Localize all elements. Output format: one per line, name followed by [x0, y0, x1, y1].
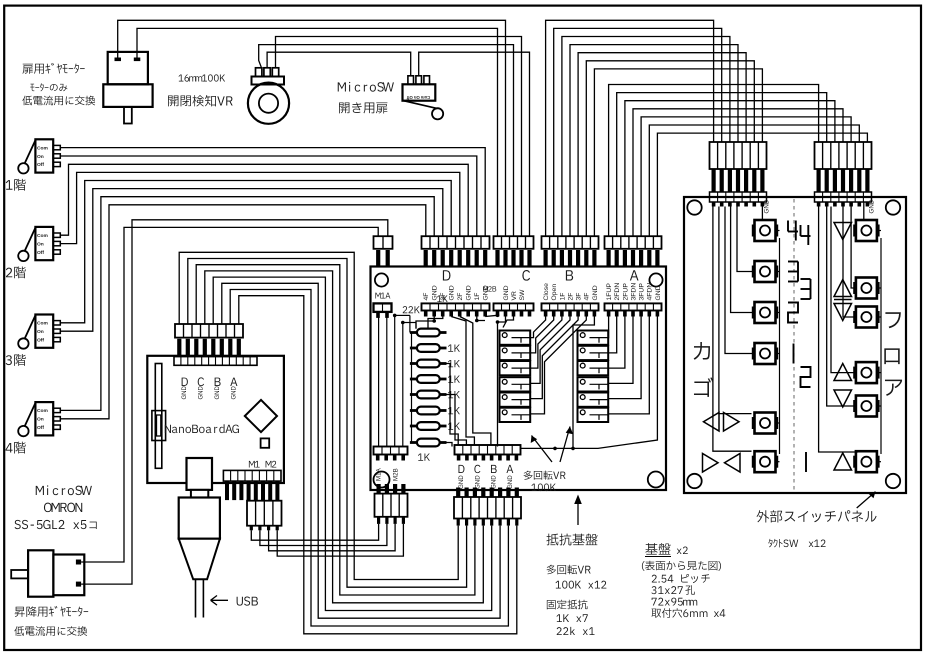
svg-text:SW: SW [519, 289, 526, 301]
wire B pin3 to left trimmer #3 [530, 317, 562, 369]
svg-text:GND: GND [491, 475, 498, 489]
svg-text:1FUP: 1FUP [606, 283, 613, 301]
label 1K overlapping D strip [437, 295, 448, 302]
connector plug B-group above resistor board [542, 236, 599, 249]
svg-text:M2B: M2B [393, 468, 400, 481]
wire A plug pin2 to right panel connector pin2 [617, 93, 827, 237]
label tact switch count [768, 539, 825, 548]
motor M1 terminal lower [76, 582, 81, 587]
panel mounting holes [687, 200, 701, 214]
wire motor M2 left terminal to C plug pin2 [118, 20, 506, 236]
tact switch right panel #4 [856, 362, 877, 383]
trimmer VR 100K right column #5 [578, 393, 609, 407]
wire M1A header pin1 down to bottom connector [378, 317, 380, 447]
header strip A on board [605, 303, 662, 310]
SW pin 2 [416, 76, 422, 85]
connector plug above NanoBoard top header [175, 324, 243, 338]
svg-text:M1A: M1A [376, 467, 383, 481]
header strip B on board [542, 303, 599, 310]
connector plug M1M2 below NanoBoard [247, 501, 282, 526]
header strip M1A on board [374, 303, 392, 312]
trimmer VR 100K right column #1 [578, 331, 609, 345]
resistor board mounting holes [375, 273, 388, 286]
wire A GND pin down to bottom rail [573, 317, 657, 449]
label resistor board with up arrow [546, 534, 597, 546]
VR pin 2 [264, 68, 270, 77]
wire 1F Com to D plug pin8 [60, 148, 485, 237]
wire D pin8 diagonal to C bus [485, 315, 497, 316]
svg-text:GND: GND [458, 475, 465, 489]
digit 2 left panel [788, 303, 798, 323]
label MicroSW [338, 82, 394, 92]
header strip D on board [422, 303, 490, 310]
svg-text:Com: Com [37, 145, 49, 151]
svg-text:GND: GND [466, 285, 473, 300]
tact switch left panel #1 [755, 220, 776, 241]
wire A pin4 to right trimmer #4 [608, 317, 633, 384]
microswitch floor 3F body [35, 315, 53, 348]
NanoBoard bottom header [223, 470, 281, 481]
triangle right-panel row5 down [834, 390, 852, 407]
svg-text:GND: GND [503, 285, 510, 300]
wire panel right pin4 to switch3 [843, 207, 856, 318]
label lift gear motor [15, 606, 88, 617]
floor 3F switch pin Off [53, 337, 60, 341]
motor M2 terminal right [134, 58, 141, 62]
VR pin 3 [272, 68, 278, 77]
wire 2F Com to D plug pin6 [60, 164, 468, 236]
floor 3F switch pin On [53, 329, 60, 333]
floor 3F switch pin Com [53, 321, 60, 325]
wire C GND pin to left bus [498, 317, 506, 447]
NanoBoard left edge connector [155, 364, 162, 469]
svg-text:On: On [37, 329, 44, 335]
connector plug C-group above resistor board [494, 236, 534, 249]
label multi-turn VR 100K with arrows [524, 471, 566, 480]
wire 2F On to D plug pin5 [60, 172, 460, 243]
motor M2 terminal left [115, 58, 122, 62]
wire panel left pin5 to switch2 [737, 207, 755, 272]
microswitch floor 2F body [35, 227, 53, 260]
tact switch right panel #1 [856, 220, 877, 241]
triangle left-panel row6 right [725, 454, 741, 473]
arrow to right trimmer column [560, 427, 570, 463]
USB arrow and label [211, 599, 228, 601]
potentiometer VR 16mm100K body [248, 83, 289, 124]
label 22K [403, 306, 420, 313]
connector plug M1A/M2B below resistor board [375, 494, 408, 517]
wire B pin1 to left trimmer #1 [530, 317, 545, 338]
wire M1M2 pin2 to M1A/M2B plug pin2 [260, 524, 387, 546]
triangle left-panel row5 right [724, 413, 740, 432]
connector plug M1A above resistor board [374, 236, 393, 249]
wire panel right pin1 to switch6 [819, 207, 858, 453]
header strip C on board [494, 303, 534, 310]
svg-text:Off: Off [37, 250, 44, 256]
resistor 1K #1 [410, 347, 418, 350]
svg-text:GND: GND [655, 285, 662, 300]
wire 4F On to D plug pin1 [60, 205, 426, 419]
wire NanoBoard D-bus pin4 to resistor board bottom plug pin4 [205, 271, 484, 603]
svg-text:GND: GND [592, 285, 599, 300]
floor 2F switch pin Off [53, 250, 60, 254]
digit 1 left panel [793, 344, 795, 364]
wire 1F On to D plug pin7 [60, 156, 477, 236]
wire B plug pin4 to left panel connector pin4 [570, 45, 738, 237]
svg-text:Close: Close [543, 283, 550, 301]
floor 1F switch pin On [53, 154, 60, 158]
svg-text:Com: Com [37, 233, 49, 239]
triangle right-panel row3 down [834, 304, 852, 321]
floor 1F switch lever [25, 140, 36, 164]
motor M2 door gear motor body [108, 52, 148, 84]
wire B GND pin down to bottom rail [521, 317, 595, 449]
digit 4 left panel [787, 221, 789, 232]
tact switch left panel #2 [755, 261, 776, 282]
SW roller [432, 108, 443, 119]
wire NanoBoard D-bus pin3 to resistor board bottom plug pin3 [196, 265, 475, 595]
header strip M1A/M2B bottom-left on board [374, 447, 408, 455]
svg-text:GND: GND [764, 199, 771, 213]
header strip panel left [710, 192, 767, 202]
wire M1M2 pin4 to M1A/M2B plug pin4 [277, 524, 403, 556]
svg-text:On: On [37, 241, 44, 247]
NanoBoard top header D C B A [174, 357, 257, 366]
label 2F floor [6, 266, 26, 278]
floor 3F switch lever [25, 315, 36, 339]
resistor 1K #7 [410, 441, 418, 444]
header strip panel right [815, 192, 872, 202]
wire M1M2 pin1 to M1A/M2B plug pin1 [251, 524, 378, 540]
wire resistor row8 right lead to bottom header [447, 443, 453, 447]
triangle right-panel row2 up [834, 280, 852, 297]
SW pin 1 [408, 76, 414, 85]
label open/close detection VR [168, 95, 233, 107]
wire NanoBoard D-bus pin8 to resistor board bottom plug pin8 [239, 296, 517, 634]
wire resistor left-lead chain [411, 333, 413, 443]
tact switch right panel #3 [856, 307, 877, 328]
triangle left-panel row5 left [704, 413, 720, 432]
VR pin 1 [256, 68, 262, 77]
label MicroSW OMRON [36, 485, 92, 495]
connector plug above panel right [815, 142, 872, 169]
floor 2F switch pin On [53, 241, 60, 245]
wire A plug pin5 to right panel connector pin5 [641, 117, 851, 236]
wire 3F On to D plug pin3 [60, 189, 443, 332]
wire resistor row3 to bottom header D pin [447, 364, 459, 446]
wire NanoBoard D-bus pin5 to resistor board bottom plug pin5 [213, 277, 492, 610]
tact switch left panel #3 [755, 302, 776, 323]
resistor 1K #5 [410, 409, 418, 412]
labels D C B A bottom header [458, 465, 464, 473]
svg-text:GND: GND [449, 285, 456, 300]
wire B plug pin3 to left panel connector pin3 [562, 37, 730, 237]
label NanoBoardAG [165, 424, 239, 433]
connector plug above panel left [710, 142, 767, 169]
digit 2 right panel [801, 367, 811, 387]
svg-text:Com On Off: Com On Off [406, 95, 430, 100]
wire microswitch middle pin to C plug pin5 [419, 52, 530, 236]
floor 3F switch roller [18, 338, 28, 348]
svg-text:GND: GND [432, 285, 439, 300]
value labels 1K [448, 344, 460, 351]
labels D C B A on NanoBoard [182, 378, 188, 386]
trimmer VR 100K left column #3 [500, 361, 531, 375]
resistor 1K #3 [410, 378, 418, 381]
section letters D C B A on resistor board [443, 270, 451, 280]
USB plug body [179, 498, 220, 539]
wire panel right pin2 to switch5 [827, 207, 856, 407]
connector plug A-group above resistor board [605, 236, 662, 249]
svg-text:VR: VR [511, 291, 518, 301]
wire GND chain left panel [779, 238, 781, 454]
floor 2F switch lever [25, 228, 36, 252]
tact switch right panel #6 [856, 451, 877, 472]
triangle left-panel row6 left [703, 454, 719, 473]
wire B pin2 to left trimmer #2 [530, 317, 554, 353]
floor 4F switch pin Com [53, 408, 60, 412]
wire A plug pin6 to right panel connector pin6 [649, 125, 859, 236]
wire resistor row5 to bottom header [447, 395, 467, 446]
connector plug DCBA-GND below resistor board [454, 497, 521, 519]
svg-text:GND: GND [474, 475, 481, 489]
svg-text:GND: GND [199, 386, 205, 400]
wire 4F Com to D plug pin2 [60, 197, 434, 411]
wire D pin5 long drop to bottom header [460, 317, 491, 446]
label 4F floor [6, 442, 26, 454]
label 16mm100K [179, 74, 226, 81]
wire NanoBoard D-bus pin2 to resistor board bottom plug pin2 [188, 259, 467, 588]
wire D pin3 into 22K resistor top [428, 317, 443, 329]
triangle right-panel row6 up [834, 453, 852, 470]
svg-text:GND: GND [215, 386, 221, 400]
floor 2F switch pin Com [53, 233, 60, 237]
trimmer VR 100K left column #5 [500, 393, 531, 407]
wire panel left pin3 to switch4 [725, 207, 755, 354]
motor M1 terminal upper [76, 560, 81, 565]
label external switch panel with arrow [757, 510, 877, 522]
tact switch left panel #5 [755, 413, 776, 434]
rotated pin labels C group [483, 286, 496, 291]
wire B pin6 to left trimmer #6 [530, 317, 586, 414]
wire A plug pin7 to right panel connector pin7 [657, 133, 867, 236]
tact switch left panel #6 [755, 451, 776, 472]
wire panel left pin1 to switch6 [713, 207, 752, 452]
svg-text:Com: Com [37, 321, 49, 327]
wire B plug pin1 to left panel connector pin1 [546, 20, 714, 236]
wire B plug pin2 to left panel connector pin2 [554, 28, 722, 236]
wire NanoBoard D-bus pin1 to resistor board bottom plug pin1 [179, 252, 458, 579]
label board x2 block [645, 543, 670, 555]
svg-text:3F: 3F [576, 293, 583, 301]
floor 1F switch pin Com [53, 145, 60, 149]
wire VR right pin to C plug pin4 [276, 37, 522, 237]
svg-text:2FDN: 2FDN [614, 283, 621, 301]
wire B plug pin7 to left panel connector pin7 [594, 69, 762, 236]
svg-text:2F: 2F [567, 293, 574, 301]
svg-text:GND: GND [182, 386, 188, 400]
panel label kago (vertical) [694, 342, 710, 360]
wire D pin7 stub [477, 317, 485, 321]
wire A pin5 to right trimmer #5 [608, 317, 641, 399]
label 3F floor [6, 354, 26, 366]
wire A plug pin1 to right panel connector pin1 [609, 85, 819, 237]
resistor 1K #2 [410, 362, 418, 365]
trimmer VR 100K left column #6 [500, 408, 531, 422]
label M1 M2 [249, 461, 276, 468]
digit 1 right panel [805, 452, 807, 472]
microswitch floor 1F body [35, 139, 53, 172]
panel label floor (vertical) [885, 312, 900, 328]
wire M1 lower terminal to M1A plug pin2 [81, 220, 388, 584]
resistor 1K #4 [410, 393, 418, 396]
resistor 1K #6 [410, 425, 418, 428]
svg-text:3FDN: 3FDN [630, 283, 637, 301]
triangle right-panel row4 up [834, 364, 852, 381]
microswitch floor 4F body [35, 402, 53, 435]
digit 3 left panel [788, 261, 798, 263]
wire 3F Com to D plug pin4 [60, 181, 451, 323]
wire panel right pin5 to switch2 [851, 207, 856, 289]
triangle right-panel row1 down [834, 223, 852, 240]
svg-text:Off: Off [37, 425, 44, 431]
SW pin 3 [424, 76, 430, 85]
floor 4F switch lever [25, 403, 36, 427]
digit 4 right panel [800, 225, 802, 236]
SW lever [404, 101, 438, 109]
trimmer VR 100K right column #2 [578, 346, 609, 360]
wire A plug pin4 to right panel connector pin4 [633, 109, 843, 236]
floor 4F switch pin Off [53, 425, 60, 429]
wire panel left pin7 to switch1 [761, 202, 763, 220]
trimmer VR 100K right column #3 [578, 361, 609, 375]
wire panel right pin3 to switch4 [831, 207, 856, 373]
connector plug D-group above resistor board [422, 236, 490, 249]
external switch panel board outline [684, 197, 906, 493]
wire M1A header pin2 down to bottom connector [386, 317, 388, 447]
label fixed resistors [547, 600, 588, 610]
tact switch right panel #5 [856, 396, 877, 417]
microswitch SW door-open body [403, 84, 436, 100]
wire D pin4 long drop to bottom header [451, 317, 474, 446]
wire D pin2 step to resistor area [416, 317, 434, 329]
trimmer VR 100K left column #4 [500, 377, 531, 391]
svg-text:1F: 1F [474, 293, 481, 301]
panel center dashed divider [793, 199, 795, 491]
wire A plug pin3 to right panel connector pin3 [625, 101, 835, 237]
svg-text:2FUP: 2FUP [622, 283, 629, 301]
label 1F floor [6, 179, 26, 191]
wire VR left pin to C plug pin3 [259, 45, 514, 237]
digit 3 right panel [801, 278, 811, 280]
svg-text:Off: Off [37, 162, 44, 168]
label door gear motor [22, 63, 84, 74]
floor 1F switch pin Off [53, 162, 60, 166]
tact switch left panel #4 [755, 343, 776, 364]
trimmer VR 100K right column #4 [578, 377, 609, 391]
NanoBoard small square component [261, 438, 270, 447]
wire motor M2 right terminal to C plug pin1 [137, 28, 498, 236]
trimmer VR 100K left column #1 [500, 331, 531, 345]
USB cable strain relief taper [179, 539, 220, 580]
wire B pin5 to left trimmer #5 [530, 317, 578, 399]
floor 4F switch roller [18, 426, 28, 436]
svg-text:On: On [37, 154, 44, 160]
NanoBoard diamond chip [245, 400, 277, 432]
arrow to left trimmer column [532, 436, 553, 463]
wire junction node second column [401, 321, 405, 325]
label M1A top-left [375, 293, 390, 299]
floor 2F switch roller [18, 251, 28, 261]
wire panel right pin7 to switch1 [863, 202, 865, 220]
svg-text:On: On [37, 417, 44, 423]
floor 4F switch pin On [53, 417, 60, 421]
svg-text:GND: GND [507, 475, 514, 489]
svg-text:2F: 2F [457, 293, 464, 301]
resistor board outline [371, 267, 667, 491]
svg-text:3FUP: 3FUP [639, 283, 646, 301]
svg-text:Open: Open [551, 284, 558, 301]
tact switch right panel #2 [856, 278, 877, 299]
trimmer VR 100K left column #2 [500, 346, 531, 360]
wire panel left pin2 to switch5 [719, 207, 752, 414]
wire A pin6 to right trimmer #6 [608, 317, 649, 414]
svg-text:Off: Off [37, 337, 44, 343]
svg-text:1F: 1F [559, 293, 566, 301]
floor 1F switch roller [18, 163, 28, 173]
svg-text:4F: 4F [423, 293, 430, 301]
wire NanoBoard D-bus pin7 to resistor board bottom plug pin7 [230, 290, 508, 627]
wire NanoBoard D-bus pin6 to resistor board bottom plug pin6 [222, 283, 500, 618]
trimmer VR 100K right column #6 [578, 408, 609, 422]
svg-text:Com: Com [37, 408, 49, 414]
wire VR middle pin to microswitch left pin [267, 52, 411, 76]
svg-text:4FDN: 4FDN [647, 283, 654, 301]
wire A pin3 to right trimmer #3 [608, 317, 625, 369]
resistor 22K [410, 331, 418, 334]
wire GND chain right panel [880, 238, 882, 454]
wire junction node to 22K resistor [393, 314, 397, 318]
header strip DCBA-GND bottom on board [455, 445, 521, 455]
wire B pin4 to left trimmer #4 [530, 317, 570, 384]
USB plug neck [187, 458, 213, 490]
wire B plug pin6 to left panel connector pin6 [586, 61, 754, 236]
wire M1M2 pin3 to M1A/M2B plug pin3 [269, 524, 396, 551]
NanoBoardAG board outline [147, 356, 284, 483]
wire panel left pin4 to switch3 [731, 207, 755, 313]
label multi-turn VR count [547, 565, 591, 575]
svg-text:4F: 4F [584, 293, 591, 301]
motor M1 lift gear motor body [28, 550, 53, 596]
svg-text:GND: GND [869, 199, 876, 213]
wire C VR pin to trimmer row1 wiper [503, 317, 514, 328]
wire B plug pin5 to left panel connector pin5 [578, 53, 746, 237]
svg-text:GND: GND [232, 386, 238, 400]
wire M1 upper terminal to M1A plug pin1 [81, 227, 378, 562]
wire A pin1 to right trimmer #1 [607, 317, 609, 338]
wire A pin2 to right trimmer #2 [608, 317, 617, 353]
USB cable [195, 579, 197, 617]
